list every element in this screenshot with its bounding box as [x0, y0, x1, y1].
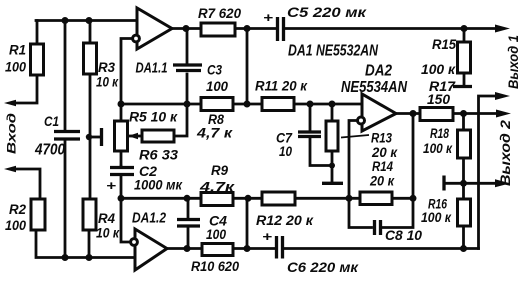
wire top rail: [36, 19, 137, 22]
wire row E (DA1.2 feedback node): [121, 197, 413, 200]
svg-text:100 к: 100 к: [421, 210, 452, 226]
wire row B (DA1.1 feedback node): [121, 39, 362, 105]
svg-text:DA1 NE5532AN: DA1 NE5532AN: [288, 43, 379, 60]
svg-text:100 к: 100 к: [423, 141, 453, 157]
svg-text:1000 мк: 1000 мк: [134, 178, 183, 194]
resistor R4: [83, 199, 96, 230]
capacitor C4: [187, 198, 190, 248]
wire cold rail right: [479, 96, 498, 249]
capacitor C8: [349, 198, 413, 227]
resistor R16: [462, 183, 465, 248]
node output2 ground arrow bottom: [495, 179, 510, 187]
resistor R13: [331, 104, 334, 182]
svg-text:C5 220 мк: C5 220 мк: [287, 5, 367, 21]
resistor R18: [462, 114, 465, 184]
svg-text:R1: R1: [9, 43, 26, 59]
wire DA2 output to R14: [412, 114, 415, 199]
wire x247 bus bottom: [246, 198, 249, 248]
svg-text:DA1.2: DA1.2: [132, 210, 167, 227]
svg-text:R9: R9: [211, 163, 228, 179]
svg-text:100: 100: [206, 79, 228, 95]
svg-text:20 к: 20 к: [369, 174, 395, 190]
resistor R10: [202, 244, 233, 256]
resistor R8: [201, 98, 233, 111]
svg-text:10 к: 10 к: [96, 75, 119, 91]
op-amp DA1.1: [137, 8, 172, 49]
svg-text:DA2: DA2: [365, 63, 392, 80]
node output2 ground arrow top: [495, 92, 510, 100]
capacitor C7: [310, 104, 332, 166]
wire row F output2 lower: [167, 247, 479, 250]
resistor R7: [201, 23, 235, 36]
potentiometer R5: [120, 104, 123, 166]
resistor R6: [174, 104, 187, 136]
svg-text:4,7к: 4,7к: [199, 180, 235, 196]
ground bar right: [442, 176, 445, 191]
svg-text:+: +: [262, 229, 273, 244]
svg-text:C1: C1: [44, 114, 59, 130]
svg-text:4,7 к: 4,7 к: [196, 126, 233, 142]
resistor R9: [201, 193, 233, 206]
svg-text:100: 100: [5, 218, 26, 234]
svg-text:C8 10: C8 10: [385, 228, 422, 244]
svg-text:C6 220 мк: C6 220 мк: [287, 260, 359, 276]
node R13 pointer: [341, 135, 369, 138]
node output2 arrow: [496, 110, 511, 118]
capacitor C6: [277, 236, 283, 259]
wire bottom rail: [36, 230, 135, 258]
svg-text:R7 620: R7 620: [198, 6, 241, 22]
ground bar R13: [322, 182, 343, 185]
svg-text:R15: R15: [432, 37, 457, 53]
resistor R17: [420, 108, 453, 121]
svg-text:R6 33: R6 33: [139, 148, 178, 164]
capacitor C1: [64, 21, 67, 258]
resistor R2: [13, 169, 40, 199]
svg-text:R12 20 к: R12 20 к: [256, 213, 314, 229]
svg-text:4700: 4700: [34, 142, 65, 159]
resistor R3: [89, 21, 92, 200]
capacitor C3: [186, 29, 189, 105]
node input arrow 2: [4, 166, 16, 173]
svg-text:10: 10: [279, 144, 292, 160]
wire output1 rail right: [285, 27, 497, 30]
svg-text:+: +: [263, 10, 274, 25]
capacitor C5: [278, 17, 284, 41]
node junction dots: [62, 17, 69, 24]
svg-text:100 к: 100 к: [421, 62, 456, 78]
op-amp DA1.2: [135, 229, 167, 270]
svg-text:R18: R18: [430, 126, 449, 142]
wire ground stub row: [445, 182, 497, 185]
svg-text:R5 10 к: R5 10 к: [129, 110, 178, 126]
capacitor (R3-R4 node stub): [86, 134, 92, 140]
wire x247 bus top: [246, 29, 249, 105]
node input arrow 1: [4, 100, 16, 107]
svg-text:10 к: 10 к: [96, 226, 120, 242]
resistor R12: [262, 192, 295, 205]
wire output1 rail: [172, 27, 276, 30]
svg-text:+: +: [106, 178, 117, 193]
resistor R14: [360, 192, 392, 205]
resistor R11: [262, 98, 294, 111]
svg-text:C3: C3: [207, 63, 222, 79]
svg-text:R2: R2: [9, 202, 26, 218]
resistor R1: [13, 21, 37, 104]
svg-text:NE5534AN: NE5534AN: [341, 79, 408, 96]
svg-text:Выход 1: Выход 1: [506, 35, 521, 89]
svg-text:Выход 2: Выход 2: [498, 119, 513, 186]
capacitor C2: [120, 166, 123, 198]
svg-text:150: 150: [427, 92, 450, 108]
node output1 arrow: [495, 25, 510, 33]
ground bar R15: [453, 85, 472, 88]
op-amp DA2: [362, 94, 396, 131]
wire DA2 output row: [396, 112, 497, 115]
resistor R15: [463, 29, 466, 86]
svg-text:DA1.1: DA1.1: [136, 60, 168, 77]
svg-text:R10 620: R10 620: [191, 259, 239, 275]
wire DA1.2 inverting lead: [121, 198, 132, 242]
svg-text:100: 100: [5, 60, 26, 76]
node R5 wiper: [130, 135, 142, 138]
svg-text:100: 100: [206, 227, 226, 243]
svg-text:R11 20 к: R11 20 к: [255, 79, 308, 95]
svg-text:Вход: Вход: [5, 112, 19, 154]
